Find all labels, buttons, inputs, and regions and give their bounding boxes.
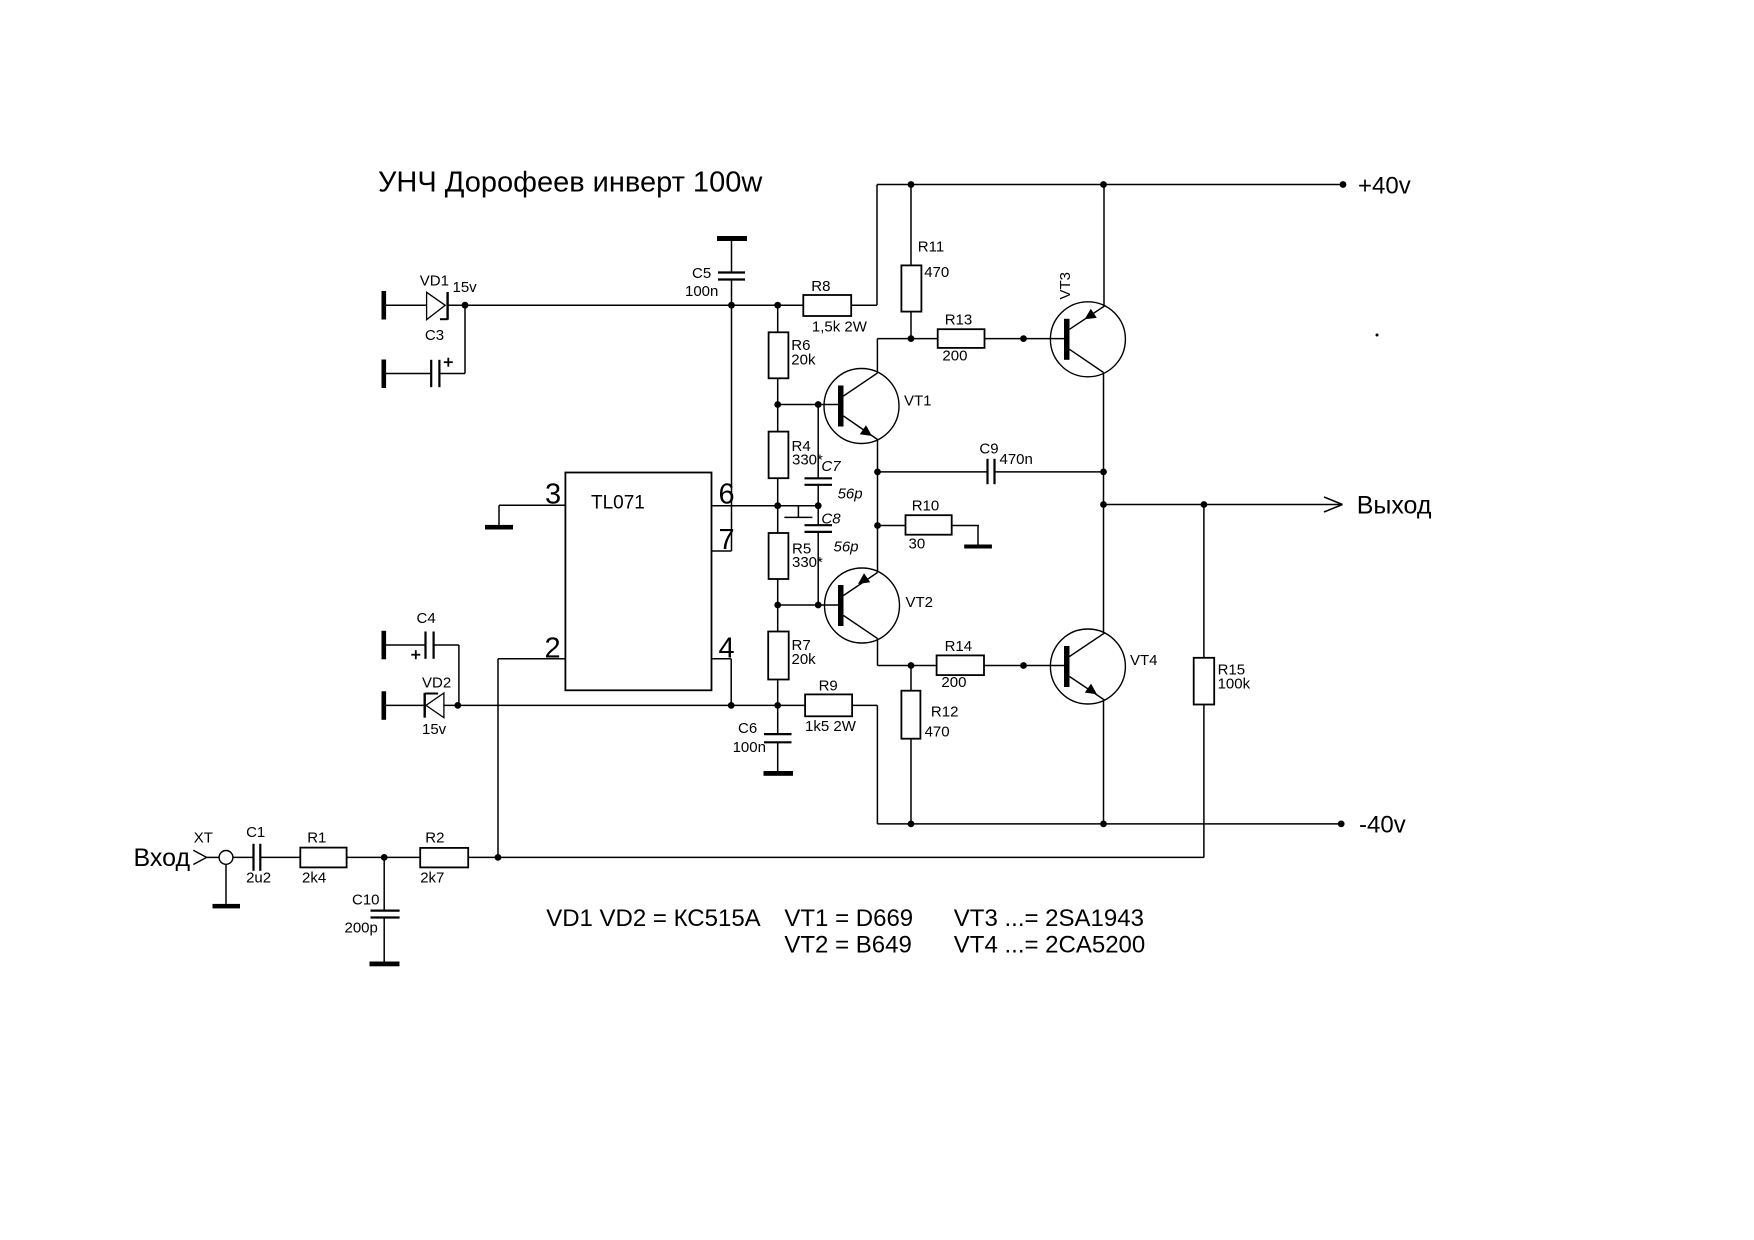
svg-text:C1: C1 [246, 824, 265, 841]
resistor R7 [768, 605, 789, 705]
svg-text:C8: C8 [821, 511, 841, 528]
terminal bar VD1 left [382, 291, 387, 320]
wire terminal to VD1 anode [386, 304, 427, 306]
pin 7 stub to box [712, 550, 732, 552]
node dot +40v rail end [1340, 181, 1347, 188]
svg-text:Вход: Вход [134, 844, 191, 872]
terminal bar C4 left [382, 631, 387, 660]
svg-text:R11: R11 [918, 239, 944, 256]
svg-text:VT3 ...= 2SA1943: VT3 ...= 2SA1943 [954, 905, 1144, 932]
svg-text:R12: R12 [931, 704, 959, 721]
svg-text:200p: 200p [345, 920, 378, 937]
node dot R5/R7 at VT2 base [774, 602, 781, 609]
svg-text:6: 6 [719, 479, 735, 511]
ground pin 3 [485, 525, 513, 530]
capacitor C8 with jog [784, 506, 832, 605]
node dot C9 right [1100, 469, 1107, 476]
-40v rail wire [877, 823, 1341, 825]
resistor R6 [769, 305, 789, 404]
capacitor C9 [878, 459, 1104, 484]
wire C5 down to pin 7 bracket [731, 280, 733, 552]
svg-text:C4: C4 [417, 610, 436, 627]
node dot R14/R12 [908, 662, 915, 669]
wire XT to C1 [233, 856, 254, 858]
plus sign C3 [444, 358, 453, 367]
svg-text:VT3: VT3 [1057, 272, 1074, 300]
svg-text:УНЧ Дорофеев инверт 100w: УНЧ Дорофеев инверт 100w [378, 167, 763, 199]
node dot R2/pin2 feedback [495, 854, 502, 861]
svg-text:C7: C7 [821, 458, 841, 475]
wire VT2 base [778, 604, 838, 606]
node dot +40v at R11 [908, 181, 915, 188]
plus sign C4 [411, 650, 420, 659]
svg-text:15v: 15v [453, 279, 478, 296]
svg-text:200: 200 [942, 348, 967, 365]
svg-text:Выход: Выход [1357, 492, 1432, 520]
supply bar above C5 [717, 236, 747, 241]
resistor R12 [901, 666, 920, 824]
node dot pin6/C7/C8 [815, 502, 822, 509]
svg-text:VT1 = D669: VT1 = D669 [784, 905, 913, 932]
wire output Выход [1104, 504, 1341, 506]
node dot R15 top [1201, 501, 1208, 508]
node dot C9 left [874, 469, 881, 476]
svg-text:+40v: +40v [1358, 173, 1411, 200]
node dot R10 left [874, 522, 881, 529]
svg-text:XT: XT [194, 830, 213, 847]
node dot -40v at VT4 [1100, 821, 1107, 828]
capacitor C4 [386, 632, 459, 706]
svg-text:200: 200 [941, 674, 966, 691]
wire terminal to VD2 [386, 704, 425, 706]
node dot -40v rail end [1338, 821, 1345, 828]
+40v rail wire [877, 184, 1343, 186]
wire op-amp pin 6 [712, 505, 819, 507]
resistor R4 [769, 405, 789, 506]
svg-text:TL071: TL071 [591, 493, 645, 514]
svg-text:4: 4 [719, 633, 735, 665]
svg-text:VD1: VD1 [420, 273, 449, 290]
resistor R13 [938, 329, 1064, 348]
svg-text:C5: C5 [692, 265, 711, 282]
wire R8 right to +40v rail [876, 185, 878, 306]
svg-text:VT4 ...= 2CA5200: VT4 ...= 2CA5200 [954, 932, 1145, 959]
node dot pin6/R4/R5 [774, 502, 781, 509]
svg-text:20k: 20k [792, 651, 817, 668]
svg-text:VT2 = B649: VT2 = B649 [784, 932, 911, 959]
svg-text:100n: 100n [733, 739, 766, 756]
svg-text:R14: R14 [945, 638, 973, 655]
arrow output [1324, 497, 1343, 512]
node dot C8 at VT2 base [815, 602, 822, 609]
node dot C5 on supply wire [728, 302, 735, 309]
svg-text:100n: 100n [685, 283, 718, 300]
wire arrow to XT circle [207, 856, 220, 858]
svg-text:30: 30 [909, 536, 926, 553]
wire VT3 collector down [1103, 373, 1105, 634]
node dot R11/R13 [908, 335, 915, 342]
op-amp U1 TL071 box [565, 473, 711, 691]
svg-text:2k4: 2k4 [302, 870, 326, 887]
resistor R14 [937, 655, 1064, 675]
resistor R15 [1194, 505, 1215, 858]
wire VT4 collector to -40v [1103, 700, 1105, 824]
terminal bar VD2 left [382, 691, 387, 720]
svg-text:R2: R2 [425, 830, 444, 847]
resistor R9 [805, 694, 877, 824]
svg-text:56p: 56p [838, 486, 863, 503]
node dot VT3 base wire [1020, 335, 1027, 342]
input arrow XT [193, 850, 206, 864]
capacitor C5 [718, 241, 745, 280]
wire VT1 base [778, 404, 838, 406]
resistor R1 [300, 848, 420, 868]
transistor VT3 [1050, 302, 1125, 377]
svg-text:15v: 15v [422, 721, 447, 738]
node dot R6 top on supply wire [774, 302, 781, 309]
terminal bar C3 left [382, 360, 387, 389]
ground XT [213, 864, 241, 908]
node dot C10 [381, 854, 388, 861]
ground C6 [764, 771, 794, 776]
wire pin 3 [499, 505, 565, 525]
svg-text:C10: C10 [352, 892, 380, 909]
resistor R11 [901, 185, 921, 339]
svg-text:470n: 470n [1000, 451, 1033, 468]
transistor VT1 [824, 369, 899, 444]
capacitor C10 [371, 857, 400, 961]
svg-text:56p: 56p [834, 539, 859, 556]
node dot +40v at VT3 emitter [1100, 181, 1107, 188]
wire VT2 collector elbow to R14 [878, 639, 937, 666]
node dot R6/R4 at VT1 base [774, 401, 781, 408]
svg-text:VT2: VT2 [906, 594, 934, 611]
svg-text:R9: R9 [819, 678, 838, 695]
svg-text:470: 470 [925, 724, 950, 741]
node dot VD2/C4 [454, 702, 461, 709]
node dot VT4 base wire [1020, 662, 1027, 669]
node dot output [1100, 501, 1107, 508]
wire VT1 collector elbow to R13 [877, 339, 937, 373]
svg-text:2: 2 [545, 633, 561, 665]
wire VT3 emitter to +40v [1103, 185, 1105, 307]
node dot C7 at VT1 base [815, 401, 822, 408]
ground C10 [370, 962, 400, 967]
svg-text:VT4: VT4 [1130, 652, 1158, 669]
zener diode VD2 [425, 693, 444, 718]
wire pin 2 [498, 659, 565, 858]
wire C3 up to node [464, 305, 466, 373]
wire VT1 emitter to VT2 emitter [877, 440, 879, 573]
svg-text:C3: C3 [425, 327, 444, 344]
svg-text:470: 470 [924, 264, 949, 281]
resistor R5 [769, 506, 789, 605]
capacitor C3 [386, 360, 465, 387]
svg-text:R10: R10 [912, 498, 940, 515]
svg-text:R13: R13 [945, 312, 973, 329]
terminal circle XT [219, 851, 233, 865]
zener diode VD1 [427, 292, 448, 320]
svg-text:2u2: 2u2 [246, 870, 271, 887]
resistor R2 [420, 848, 1204, 868]
svg-text:R8: R8 [811, 278, 830, 295]
svg-text:VT1: VT1 [904, 393, 932, 410]
capacitor C1 [254, 844, 301, 871]
resistor R10 [878, 515, 980, 544]
node dot VD1/C3 [462, 302, 469, 309]
svg-text:VD1 VD2 = КС515А: VD1 VD2 = КС515А [546, 905, 761, 932]
transistor VT4 [1050, 629, 1125, 704]
svg-text:330*: 330* [792, 554, 823, 571]
svg-text:VD2: VD2 [422, 675, 451, 692]
svg-text:C6: C6 [738, 720, 757, 737]
svg-text:R1: R1 [307, 830, 326, 847]
transistor VT2 [825, 568, 900, 643]
wire VD1 cathode to C5 node [448, 304, 804, 306]
capacitor C6 [764, 705, 792, 771]
ground R10 [964, 545, 992, 549]
svg-text:1,5k 2W: 1,5k 2W [812, 319, 868, 336]
svg-text:C9: C9 [979, 441, 998, 458]
node dot pin4 landing [728, 702, 735, 709]
capacitor C7 [805, 405, 833, 506]
wire pin 4 [712, 659, 732, 706]
svg-text:100k: 100k [1218, 676, 1251, 693]
svg-text:1k5 2W: 1k5 2W [805, 718, 857, 735]
node dot -40v at R12 [908, 821, 915, 828]
svg-text:2k7: 2k7 [420, 870, 444, 887]
resistor R8 [803, 295, 877, 316]
node dot R7/C6/R9 [774, 702, 781, 709]
speck artifact [1376, 334, 1379, 337]
svg-text:7: 7 [719, 524, 735, 556]
svg-text:20k: 20k [791, 352, 816, 369]
svg-text:-40v: -40v [1359, 812, 1406, 839]
wire VD2 to R9 [444, 704, 805, 706]
